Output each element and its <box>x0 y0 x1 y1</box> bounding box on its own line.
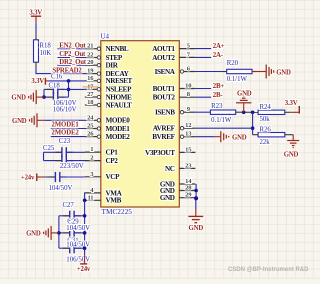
pin 28 GND (right) <box>160 185 196 195</box>
svg-text:12: 12 <box>185 122 192 129</box>
svg-text:VCP: VCP <box>106 173 121 181</box>
svg-text:R24: R24 <box>260 104 272 111</box>
wire BVREF to GND <box>195 136 214 138</box>
ground GND (R20) <box>252 65 291 79</box>
pin 17 NSLEEP (left) <box>85 83 132 93</box>
svg-text:C18: C18 <box>49 82 61 89</box>
power port 3.3V (top, feeds R18) <box>29 9 42 23</box>
wire CP1-CP2 left tie <box>43 152 45 160</box>
svg-text:BVREF: BVREF <box>152 133 175 141</box>
node junction C29/VM rail <box>83 231 87 235</box>
pin 12 AVREF (right) <box>153 122 196 132</box>
svg-text:223/50V: 223/50V <box>60 163 84 170</box>
wire net 2MODE1 to pin25 <box>51 128 85 130</box>
ground GND (R26) <box>284 135 299 159</box>
pin 1 CP1 (left) <box>85 146 118 156</box>
svg-text:13: 13 <box>185 131 192 138</box>
pin 6 ISENA (right) <box>155 66 196 76</box>
pin 24 MODE0 (left) <box>85 114 130 124</box>
svg-text:R23: R23 <box>211 103 223 110</box>
resistor R18 10K pullup <box>34 34 52 67</box>
svg-text:CP1: CP1 <box>106 149 119 157</box>
svg-text:20: 20 <box>87 59 94 66</box>
svg-text:EN2_Out: EN2_Out <box>59 42 86 49</box>
ground GND (BVREF) <box>214 131 247 142</box>
capacitor C27 <box>59 202 85 221</box>
pin 9 ISENB (right) <box>155 106 195 116</box>
svg-text:+24v: +24v <box>77 266 91 273</box>
svg-text:AOUT1: AOUT1 <box>152 45 175 53</box>
pin 20 DIR (left) <box>85 59 119 69</box>
pin 15 V3P3OUT (right) <box>145 146 195 156</box>
wire NSLEEP row <box>69 88 85 90</box>
svg-text:NRESET: NRESET <box>106 77 133 85</box>
svg-text:104/50V: 104/50V <box>66 242 90 249</box>
ground GND (sense, points up) <box>236 91 252 113</box>
svg-text:3.3V: 3.3V <box>285 100 298 107</box>
wire AVREF to divider <box>195 127 252 129</box>
svg-text:GND: GND <box>189 225 204 232</box>
wire net CP2_Out <box>58 57 85 59</box>
svg-text:0.1/1W: 0.1/1W <box>211 117 232 124</box>
ground GND (MODE0) <box>12 113 45 127</box>
pin 16 NRESET (left) <box>85 75 133 85</box>
wire 3.3V to R18 <box>35 23 37 34</box>
node junction VMB <box>83 199 87 203</box>
svg-text:21: 21 <box>87 43 93 50</box>
wire divider vertical <box>252 112 254 134</box>
svg-text:MODE2: MODE2 <box>106 133 131 141</box>
svg-text:104/50V: 104/50V <box>49 185 73 192</box>
svg-text:3.3V: 3.3V <box>31 78 44 85</box>
svg-text:GND: GND <box>284 152 299 159</box>
ground GND (chip GND pins) <box>188 209 203 232</box>
svg-text:GND: GND <box>160 194 175 202</box>
svg-text:106/50V: 106/50V <box>66 257 90 264</box>
pin 27 NHOME (left) <box>85 91 132 101</box>
resistor R24 50k <box>258 104 290 123</box>
IC U4 TMC2225 body <box>101 41 180 207</box>
pin 5 AOUT1 (right) <box>152 43 195 53</box>
wire net DR2_Out <box>58 64 85 66</box>
svg-text:NENBL: NENBL <box>106 45 129 53</box>
pin 29 GND (right) <box>160 192 196 202</box>
svg-text:2B-: 2B- <box>213 92 224 99</box>
node junction R24/R26 divider <box>251 111 255 115</box>
svg-text:10K: 10K <box>40 50 52 57</box>
svg-text:VMB: VMB <box>106 197 122 205</box>
ground GND (C16/C18) <box>11 90 44 104</box>
node junction at GND (C16/C18) <box>42 95 46 99</box>
pin 2 CP2 (left) <box>85 155 118 165</box>
pin 23 NC (right) <box>165 162 195 172</box>
node junction NSLEEP rail <box>67 88 71 92</box>
svg-text:GND: GND <box>276 69 291 76</box>
pin 11 VMB (left) <box>85 194 122 204</box>
svg-text:16: 16 <box>87 75 94 82</box>
svg-text:106/10V: 106/10V <box>53 107 77 114</box>
node junction C31/VM rail <box>83 246 87 250</box>
svg-text:0.1/1W: 0.1/1W <box>227 76 248 83</box>
net label 2MODE2 <box>51 129 83 136</box>
pin 13 BVREF (right) <box>152 131 195 141</box>
svg-text:R26: R26 <box>260 126 272 133</box>
svg-text:2A+: 2A+ <box>213 43 225 50</box>
pin 14 GND (right) <box>160 178 196 188</box>
svg-text:2MODE1: 2MODE1 <box>51 121 79 128</box>
svg-text:CP2: CP2 <box>106 157 119 165</box>
power port 3.3V (R24) <box>285 100 300 114</box>
capacitor C25 (CP2) <box>43 145 85 166</box>
pin 7 AOUT2 (right) <box>152 51 195 61</box>
svg-text:104/50V: 104/50V <box>66 225 90 232</box>
svg-text:23: 23 <box>185 162 192 169</box>
svg-text:TMC2225: TMC2225 <box>102 207 133 216</box>
svg-text:U4: U4 <box>101 33 110 41</box>
svg-text:DIR: DIR <box>106 62 119 70</box>
svg-text:GND: GND <box>12 118 27 125</box>
wire net 2A+ <box>195 48 211 50</box>
svg-text:R20: R20 <box>227 60 239 67</box>
svg-text:AOUT2: AOUT2 <box>152 54 175 62</box>
wire 3.3V to pin16 NRESET <box>49 80 85 82</box>
svg-text:24: 24 <box>87 114 94 121</box>
resistor R23 0.1/1W <box>210 103 235 124</box>
pin 10 BOUT1 (right) <box>153 83 196 93</box>
capacitor C31 104/50V <box>59 237 90 253</box>
wire C16-C18 left tie <box>43 89 45 97</box>
wire GND to pin24 MODE0 <box>45 119 85 121</box>
svg-text:26: 26 <box>87 131 94 138</box>
svg-text:BOUT2: BOUT2 <box>153 94 176 102</box>
wire R23 to R24 <box>236 111 258 113</box>
svg-text:15: 15 <box>185 146 192 153</box>
node junction GND pin28 <box>194 189 198 193</box>
capacitor C29 104/50V <box>59 219 90 238</box>
svg-text:C23: C23 <box>59 138 71 145</box>
node junction GND stem (R23) <box>242 111 246 115</box>
svg-text:MODE0: MODE0 <box>106 117 131 125</box>
svg-text:MODE1: MODE1 <box>106 125 131 133</box>
pin 19 DECAY (left) <box>85 68 130 78</box>
svg-text:11: 11 <box>87 194 93 201</box>
svg-text:1: 1 <box>90 146 93 153</box>
resistor R20 0.1/1W <box>222 60 257 83</box>
svg-text:C27: C27 <box>63 202 75 209</box>
svg-text:10: 10 <box>185 83 192 90</box>
svg-text:NHOME: NHOME <box>106 93 133 101</box>
node junction NRESET rail <box>67 79 71 83</box>
wire left bypass rail <box>58 216 60 248</box>
pin 21 NENBL (left) <box>85 43 129 53</box>
node junction AVREF <box>251 126 255 130</box>
wire net 2B+ <box>195 88 211 90</box>
pin 4 VMA (left) <box>85 187 123 197</box>
node junction GND pin29 <box>194 196 198 200</box>
svg-text:GND: GND <box>11 95 26 102</box>
wire ISENA to R20 <box>195 71 224 73</box>
wire R18 bottom to DECAY pin (net SPREAD2) <box>36 67 85 73</box>
wire VMA corner to +24v rail <box>84 193 86 255</box>
svg-text:22k: 22k <box>260 139 271 146</box>
svg-text:R18: R18 <box>40 42 52 49</box>
net label 2MODE1 <box>51 121 83 128</box>
capacitor 104/50V (VCP) <box>45 172 85 192</box>
ground GND (bypass caps) <box>26 226 59 240</box>
capacitor C18 10uF <box>44 82 69 102</box>
svg-text:3.3V: 3.3V <box>29 9 42 16</box>
pin 8 BOUT2 (right) <box>153 91 196 101</box>
svg-text:2B+: 2B+ <box>213 83 225 90</box>
pin 18 NFAULT (left) <box>85 99 132 109</box>
svg-text:DR2_Out: DR2_Out <box>59 59 86 66</box>
svg-text:GND: GND <box>26 231 41 238</box>
node junction C27/VM rail <box>83 214 87 218</box>
resistor R26 22k <box>253 126 294 146</box>
svg-text:ISENA: ISENA <box>155 68 176 76</box>
svg-text:GND: GND <box>232 134 247 141</box>
pin 22 STEP (left) <box>85 52 123 62</box>
svg-text:50k: 50k <box>260 116 271 123</box>
svg-text:NC: NC <box>165 165 175 173</box>
node junction C29 left (GND) <box>57 231 61 235</box>
power port 3.3V (left, NRESET pullup) <box>31 78 48 85</box>
svg-text:NFAULT: NFAULT <box>106 101 133 109</box>
power port +24v (bottom VM rail) <box>77 255 91 273</box>
wire net 2MODE2 to pin26 <box>51 136 85 138</box>
svg-text:28: 28 <box>185 185 192 192</box>
capacitor C16 10uF <box>44 74 69 95</box>
svg-text:+24v: +24v <box>21 175 35 182</box>
wire net 2A- <box>195 56 211 58</box>
svg-text:V3P3OUT: V3P3OUT <box>145 149 175 157</box>
svg-text:CSDN @BP-Instrument R&D: CSDN @BP-Instrument R&D <box>228 267 309 273</box>
svg-text:ISENB: ISENB <box>155 109 175 117</box>
svg-text:19: 19 <box>87 68 94 75</box>
pin 25 MODE1 (left) <box>85 123 130 133</box>
svg-text:C16: C16 <box>51 74 63 81</box>
power port +24v (VCP) <box>21 174 45 182</box>
svg-text:27: 27 <box>87 91 94 98</box>
svg-text:BOUT1: BOUT1 <box>153 85 176 93</box>
wire net 2B- <box>195 96 211 98</box>
wire GND pins rail <box>195 184 197 209</box>
capacitor C23 22nF (CP1) <box>44 138 85 158</box>
svg-text:AVREF: AVREF <box>153 125 176 133</box>
svg-text:25: 25 <box>87 123 94 130</box>
wire vertical NRESET-NSLEEP tie <box>68 81 70 97</box>
svg-text:18: 18 <box>87 99 94 106</box>
wire ISENB to R23 <box>195 111 210 113</box>
pin 3 VCP (left) <box>85 171 120 181</box>
svg-text:C25: C25 <box>43 145 55 152</box>
svg-text:22: 22 <box>87 52 94 59</box>
svg-text:2A-: 2A- <box>213 52 224 59</box>
svg-text:2MODE2: 2MODE2 <box>51 130 79 137</box>
svg-text:29: 29 <box>185 192 192 199</box>
wire orange highlight on NSLEEP <box>83 86 98 88</box>
pin 26 MODE2 (left) <box>85 131 130 141</box>
svg-text:GND: GND <box>237 91 252 98</box>
svg-text:CP2_Out: CP2_Out <box>59 51 86 58</box>
wire net EN2_Out <box>58 48 85 50</box>
